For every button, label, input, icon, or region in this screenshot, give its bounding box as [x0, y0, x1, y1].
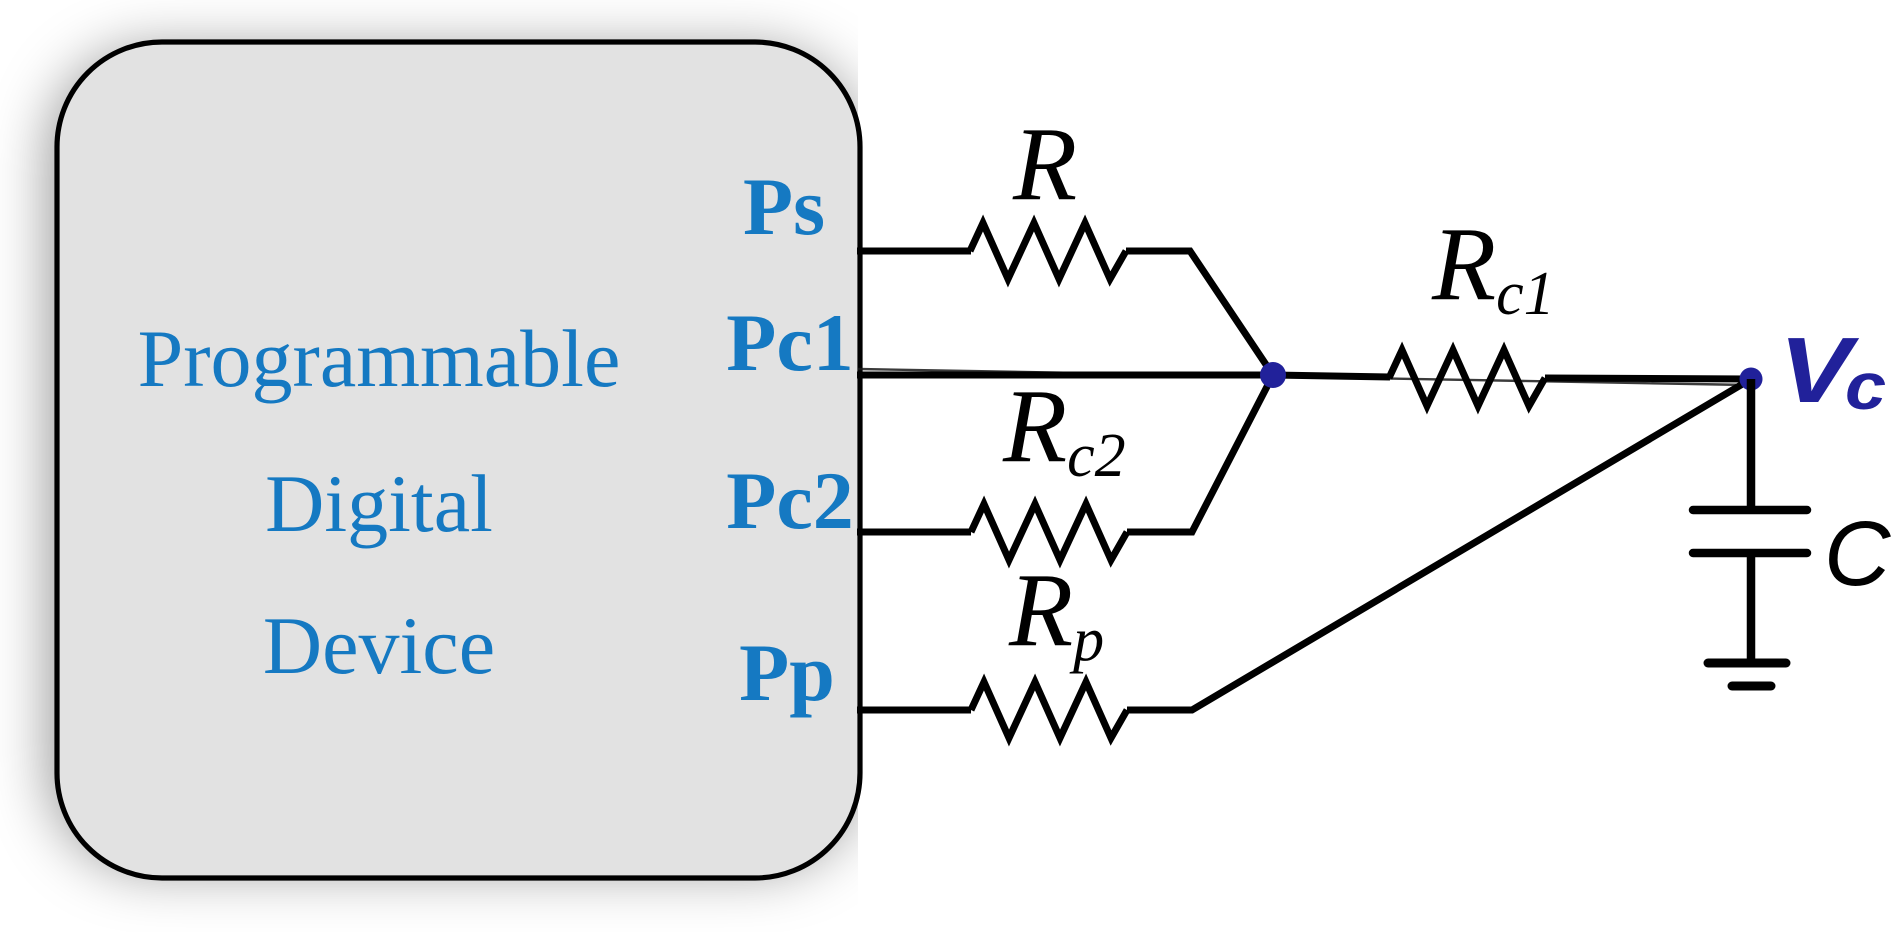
- resistor Rp: [971, 682, 1127, 738]
- wire Pc2 to resistor Rc2: [857, 529, 971, 536]
- svg-text:Device: Device: [263, 600, 495, 691]
- device box shadow: [50, 50, 860, 870]
- svg-text:Ps: Ps: [743, 161, 825, 252]
- wire Ps to resistor R: [857, 248, 971, 255]
- capacitor C: [1693, 510, 1807, 553]
- wire Rc2 to node A: [1127, 375, 1273, 532]
- node A junction dot: [1260, 362, 1286, 388]
- wire Pc1 to node A: [857, 372, 1273, 379]
- resistor R: [970, 223, 1126, 279]
- svg-text:Pp: Pp: [739, 627, 835, 718]
- wire Vc to capacitor C: [1747, 379, 1756, 510]
- wire thin underlay Pc1 to Vc: [858, 369, 1748, 385]
- svg-text:c: c: [1845, 350, 1886, 423]
- node Vc dot: [1740, 368, 1763, 391]
- svg-text:Programmable: Programmable: [138, 313, 621, 404]
- resistor Rc2: [971, 504, 1127, 560]
- wire Rc1 to node Vc: [1545, 378, 1751, 379]
- device box: Programmable Digital Device: [57, 42, 860, 878]
- ground: [1708, 663, 1786, 686]
- svg-text:Pc1: Pc1: [726, 297, 853, 388]
- wire node A to resistor Rc1: [1273, 375, 1390, 377]
- svg-text:C: C: [1824, 503, 1891, 605]
- wire capacitor to ground: [1747, 553, 1756, 662]
- wire Rp to node Vc: [1127, 379, 1751, 710]
- resistor Rc1: [1389, 350, 1545, 406]
- label: Programmable Digital Device: [138, 313, 621, 691]
- svg-text:Pc2: Pc2: [726, 455, 853, 546]
- wire Pp to resistor Rp: [857, 707, 971, 714]
- svg-text:R: R: [1012, 105, 1077, 222]
- svg-text:Digital: Digital: [265, 458, 493, 549]
- wire R to node A: [1126, 251, 1273, 375]
- label Vc: [1779, 318, 1886, 423]
